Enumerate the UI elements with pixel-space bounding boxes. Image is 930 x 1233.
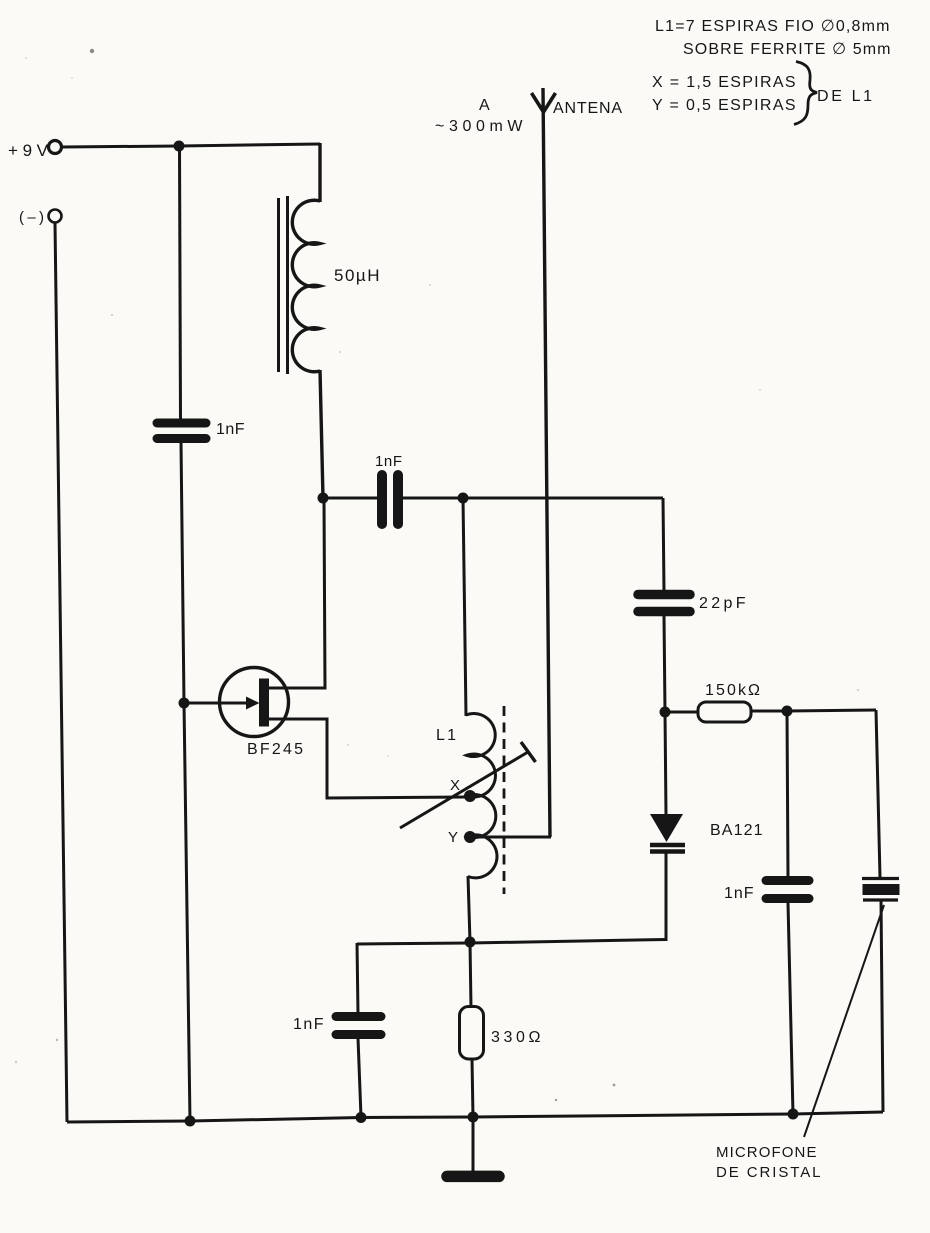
wire node E to right corner xyxy=(463,497,663,500)
node supply junction xyxy=(174,141,185,152)
capacitor C3 22pF xyxy=(638,595,690,612)
wire C2 to node E xyxy=(402,497,463,500)
capacitor C2 1nF (coupling) xyxy=(382,475,398,524)
node gate junction xyxy=(179,698,190,709)
label 330Ohm xyxy=(491,1029,542,1046)
wire mid-rail corner down to C4 xyxy=(357,943,358,1014)
brace xyxy=(794,62,817,125)
label 1nF (C1) xyxy=(216,421,246,438)
svg-text:DE CRISTAL: DE CRISTAL xyxy=(716,1164,822,1181)
wire gate node down to bottom rail xyxy=(184,703,190,1121)
svg-text:BF245: BF245 xyxy=(247,741,305,758)
label ~300mW xyxy=(435,118,524,135)
svg-text:DE L1: DE L1 xyxy=(817,88,874,105)
label 22pF xyxy=(699,595,747,612)
wire C3 down to node F xyxy=(664,616,665,712)
ground symbol xyxy=(447,1171,499,1183)
svg-text:Y: Y xyxy=(448,829,458,846)
node varicap junction xyxy=(660,707,671,718)
svg-text:L1: L1 xyxy=(436,727,458,744)
resistor R1 150k xyxy=(698,702,751,722)
antenna arrowhead xyxy=(532,93,556,112)
node tank top junction xyxy=(458,493,469,504)
wire supply junction down to C1 xyxy=(180,146,181,420)
wire +9V to top-right corner xyxy=(62,144,320,147)
node mic junction xyxy=(782,706,793,717)
crystal microphone element xyxy=(862,879,900,901)
capacitor C4 1nF (source bypass) xyxy=(336,1017,381,1035)
wire mid rail xyxy=(357,940,666,945)
svg-text:SOBRE FERRITE ∅ 5mm: SOBRE FERRITE ∅ 5mm xyxy=(683,41,891,58)
node Y tap xyxy=(464,831,476,843)
terminal (-) xyxy=(49,210,62,223)
wire node E down to L1 xyxy=(463,498,466,716)
svg-text:L1=7 ESPIRAS FIO ∅0,8mm: L1=7 ESPIRAS FIO ∅0,8mm xyxy=(655,18,890,35)
inductor 50uH core lines xyxy=(279,196,288,374)
label X xyxy=(450,777,460,794)
svg-text:X: X xyxy=(450,777,460,794)
label MICROFONE DE CRISTAL xyxy=(716,1144,822,1181)
note X Y taps text xyxy=(652,74,796,114)
wire node D to C2 xyxy=(323,497,378,500)
wire (-) down to bottom-left corner xyxy=(55,223,67,1122)
label +9V xyxy=(8,141,49,160)
wire node F down to D1 xyxy=(665,712,666,815)
note L1 winding text xyxy=(655,18,891,58)
wire C5 down to bottom rail xyxy=(788,903,793,1114)
label 1nF (C5) xyxy=(724,885,755,902)
paper speckles xyxy=(15,49,859,1101)
wire D1 down to mid rail xyxy=(665,853,668,941)
wire node G down to C5 xyxy=(787,711,788,877)
node emitter rail junction xyxy=(465,937,476,948)
label Y xyxy=(448,829,458,846)
wire R2 down to ground node xyxy=(472,1059,473,1117)
label (-) xyxy=(19,209,44,226)
node C4 ground junction xyxy=(356,1112,367,1123)
wire microphone down to rail corner xyxy=(881,900,883,1112)
svg-text:22pF: 22pF xyxy=(699,595,747,612)
ground stub wire xyxy=(472,1117,475,1172)
terminal +9V xyxy=(49,141,62,154)
adjustment arrow across L1 xyxy=(400,742,536,828)
label DE L1 xyxy=(817,88,874,105)
svg-text:(–): (–) xyxy=(19,209,44,226)
ferrite dashed line xyxy=(503,706,506,894)
svg-text:1nF: 1nF xyxy=(293,1016,325,1033)
wire node G to right corner xyxy=(787,710,876,711)
label 1nF (C2) xyxy=(375,453,403,470)
wire right corner down to microphone xyxy=(876,710,880,877)
label ANTENA xyxy=(553,100,623,117)
bottom rail wire xyxy=(67,1112,883,1122)
wire Y tap to antenna mast xyxy=(470,836,551,839)
transistor Q1 BF245 body xyxy=(220,668,289,737)
label 150kOhm xyxy=(705,682,761,699)
svg-text:330Ω: 330Ω xyxy=(491,1029,542,1046)
node negative rail junction xyxy=(185,1116,196,1127)
svg-text:50µH: 50µH xyxy=(334,266,381,285)
wire gate with arrow xyxy=(184,697,260,710)
wire C4 down to bottom rail xyxy=(358,1038,361,1117)
wire top corner down to inductor xyxy=(318,143,321,202)
microphone pointer line xyxy=(804,905,884,1137)
diode D1 BA121 varicap xyxy=(650,814,685,852)
svg-text:X = 1,5 ESPIRAS: X = 1,5 ESPIRAS xyxy=(652,74,796,91)
wire C1 to gate node xyxy=(181,442,184,703)
capacitor C5 1nF (right) xyxy=(766,881,809,899)
node X tap xyxy=(464,790,476,802)
svg-text:150kΩ: 150kΩ xyxy=(705,682,761,699)
wire R1 to node G xyxy=(751,710,787,713)
wire node H down to R2 xyxy=(470,942,471,1008)
antenna mast xyxy=(543,88,550,837)
label L1 xyxy=(436,727,458,744)
capacitor C1 1nF (left bypass) xyxy=(157,423,206,439)
node ground junction xyxy=(468,1112,479,1123)
svg-text:BA121: BA121 xyxy=(710,822,764,839)
resistor R2 330 xyxy=(460,1007,484,1060)
svg-text:MICROFONE: MICROFONE xyxy=(716,1144,818,1161)
label BF245 xyxy=(247,741,305,758)
wire drain xyxy=(268,501,325,688)
wire L1 bottom to node H xyxy=(468,876,470,942)
svg-text:A: A xyxy=(479,97,490,114)
label BA121 xyxy=(710,822,764,839)
node drain junction xyxy=(318,493,329,504)
label A xyxy=(479,97,490,114)
svg-text:+9V: +9V xyxy=(8,141,49,160)
inductor 50uH coil xyxy=(292,200,320,372)
node mic ground junction xyxy=(788,1109,799,1120)
svg-text:~300mW: ~300mW xyxy=(435,118,524,135)
wire node F to R1 xyxy=(665,711,699,714)
svg-text:1nF: 1nF xyxy=(375,453,403,470)
svg-text:ANTENA: ANTENA xyxy=(553,100,623,117)
svg-text:1nF: 1nF xyxy=(724,885,755,902)
inductor L1 coil xyxy=(466,714,497,878)
wire source to X tap xyxy=(268,719,466,798)
wire inductor bottom to node D xyxy=(320,370,323,498)
label 50uH xyxy=(334,266,381,285)
svg-text:1nF: 1nF xyxy=(216,421,246,438)
svg-text:Y = 0,5 ESPIRAS: Y = 0,5 ESPIRAS xyxy=(652,97,796,114)
label 1nF (C4) xyxy=(293,1016,325,1033)
transistor Q1 channel bar xyxy=(259,679,269,727)
wire corner down to C3 xyxy=(663,498,664,591)
